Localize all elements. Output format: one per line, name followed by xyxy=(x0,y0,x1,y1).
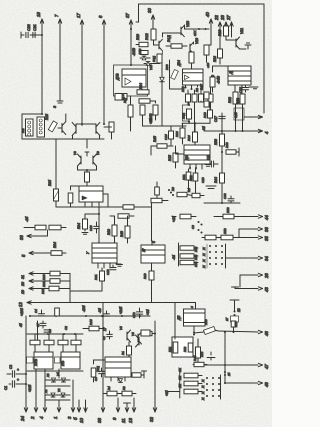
svg-text:R46: R46 xyxy=(225,142,229,148)
svg-text:23: 23 xyxy=(220,15,225,21)
svg-text:C21: C21 xyxy=(33,24,37,31)
svg-text:R40: R40 xyxy=(120,231,124,237)
svg-text:R18: R18 xyxy=(181,86,185,92)
svg-text:46: 46 xyxy=(264,331,269,336)
svg-text:C19: C19 xyxy=(89,225,93,231)
svg-text:R53: R53 xyxy=(226,207,230,213)
svg-text:C15: C15 xyxy=(234,112,238,118)
svg-text:R63: R63 xyxy=(236,98,240,104)
svg-text:+2б: +2б xyxy=(206,63,210,68)
svg-text:R26: R26 xyxy=(213,56,217,62)
svg-text:R52: R52 xyxy=(223,228,227,234)
svg-text:R51: R51 xyxy=(182,174,186,180)
svg-text:Ж: Ж xyxy=(202,253,206,257)
svg-text:R0: R0 xyxy=(171,187,175,191)
svg-text:R4: R4 xyxy=(187,188,191,192)
svg-text:35: 35 xyxy=(264,236,269,241)
svg-text:1Ж: 1Ж xyxy=(178,376,182,380)
svg-text:R03: R03 xyxy=(194,261,198,267)
svg-text:C2: C2 xyxy=(64,326,68,330)
svg-text:R38: R38 xyxy=(42,281,46,287)
svg-text:28: 28 xyxy=(264,273,269,279)
svg-text:C9: C9 xyxy=(48,329,52,333)
svg-text:Ж: Ж xyxy=(202,247,206,251)
svg-text:43: 43 xyxy=(264,287,269,292)
svg-text:C4: C4 xyxy=(34,309,38,313)
svg-text:ВМ: ВМ xyxy=(21,128,25,133)
svg-text:+9б: +9б xyxy=(146,309,150,315)
svg-text:C08: C08 xyxy=(223,193,227,199)
svg-text:-10б: -10б xyxy=(82,305,86,312)
svg-text:Ж: Ж xyxy=(202,259,206,263)
svg-text:C1: C1 xyxy=(4,386,8,390)
svg-text:22: 22 xyxy=(214,15,219,21)
svg-text:47: 47 xyxy=(264,364,269,369)
svg-text:C11: C11 xyxy=(206,154,210,160)
svg-text:11: 11 xyxy=(121,418,126,423)
svg-text:2ТВ: 2ТВ xyxy=(61,361,65,367)
svg-text:+26В: +26В xyxy=(149,113,153,122)
svg-text:R0Д: R0Д xyxy=(152,55,156,62)
svg-text:C10: C10 xyxy=(201,177,205,183)
svg-text:10: 10 xyxy=(79,418,84,423)
svg-text:-26В: -26В xyxy=(132,48,136,56)
svg-text:Х3: Х3 xyxy=(46,373,50,378)
svg-text:R4: R4 xyxy=(107,386,111,390)
svg-text:C12: C12 xyxy=(132,312,136,318)
svg-text:R10: R10 xyxy=(143,273,147,279)
svg-text:R45: R45 xyxy=(200,351,204,357)
svg-text:48: 48 xyxy=(264,382,269,387)
svg-text:18: 18 xyxy=(36,12,41,17)
svg-text:R1б: R1б xyxy=(45,114,49,120)
svg-text:33: 33 xyxy=(19,235,24,240)
svg-text:R51: R51 xyxy=(168,346,172,352)
svg-text:Ж: Ж xyxy=(202,265,206,269)
svg-text:2: 2 xyxy=(30,416,35,420)
svg-text:-9б: -9б xyxy=(202,126,206,131)
svg-text:C22: C22 xyxy=(27,24,31,31)
svg-text:R31: R31 xyxy=(94,274,98,280)
svg-text:+1б: +1б xyxy=(172,216,176,222)
svg-text:R03: R03 xyxy=(194,254,198,260)
svg-text:C18: C18 xyxy=(239,87,243,93)
svg-text:44: 44 xyxy=(264,215,269,220)
svg-text:4б: 4б xyxy=(19,323,23,327)
svg-text:R64: R64 xyxy=(139,83,143,89)
svg-text:R2: R2 xyxy=(195,88,199,92)
svg-text:V19: V19 xyxy=(195,38,199,44)
svg-text:18: 18 xyxy=(237,308,241,312)
svg-text:1Ж: 1Ж xyxy=(178,368,182,372)
svg-text:R45: R45 xyxy=(153,136,157,142)
svg-text:R08: R08 xyxy=(194,246,198,252)
svg-text:17: 17 xyxy=(225,317,229,321)
svg-text:Д04: Д04 xyxy=(177,60,181,67)
svg-text:V2: V2 xyxy=(57,388,61,392)
svg-text:1Ж: 1Ж xyxy=(178,384,182,388)
svg-text:C1б: C1б xyxy=(164,134,168,140)
svg-text:б: б xyxy=(152,241,156,243)
svg-text:12: 12 xyxy=(18,302,23,307)
svg-text:R1: R1 xyxy=(121,351,125,355)
svg-text:27: 27 xyxy=(226,15,231,21)
svg-text:V8: V8 xyxy=(73,151,77,155)
svg-text:17: 17 xyxy=(103,327,107,331)
svg-text:V5: V5 xyxy=(131,332,135,336)
svg-text:R34: R34 xyxy=(53,242,57,248)
svg-text:13: 13 xyxy=(128,418,133,423)
svg-text:+: + xyxy=(17,368,19,372)
svg-text:V15: V15 xyxy=(149,64,153,70)
svg-text:V9: V9 xyxy=(96,151,100,155)
svg-text:R44: R44 xyxy=(214,177,218,183)
svg-text:R16: R16 xyxy=(218,30,222,36)
svg-text:C7: C7 xyxy=(36,323,40,327)
svg-text:36: 36 xyxy=(264,227,269,232)
svg-text:R04: R04 xyxy=(77,223,81,229)
svg-text:R62: R62 xyxy=(228,97,232,103)
svg-text:Д5: Д5 xyxy=(177,316,181,321)
svg-text:V21: V21 xyxy=(240,28,244,34)
svg-text:V5: V5 xyxy=(119,326,123,330)
svg-text:R52: R52 xyxy=(189,175,193,181)
svg-text:R18: R18 xyxy=(107,229,111,235)
svg-text:+: + xyxy=(17,378,19,382)
svg-text:24: 24 xyxy=(20,416,25,422)
svg-text:40: 40 xyxy=(205,12,210,17)
svg-text:Д6: Д6 xyxy=(185,156,189,161)
svg-text:R4б: R4б xyxy=(204,319,208,325)
svg-text:37: 37 xyxy=(125,13,130,18)
svg-text:C2: C2 xyxy=(102,336,106,340)
svg-text:R09: R09 xyxy=(165,64,169,70)
svg-text:+24б: +24б xyxy=(119,307,123,314)
svg-text:R1Д: R1Д xyxy=(167,35,171,42)
svg-text:38: 38 xyxy=(97,418,102,423)
svg-text:R4б: R4б xyxy=(193,355,197,361)
svg-text:R2Д: R2Д xyxy=(182,112,186,119)
svg-text:Х1: Х1 xyxy=(44,389,48,394)
svg-text:R71: R71 xyxy=(234,321,238,327)
svg-text:R52: R52 xyxy=(183,346,187,352)
svg-text:31: 31 xyxy=(21,275,25,279)
svg-text:R2: R2 xyxy=(122,386,126,390)
svg-text:-24В: -24В xyxy=(217,76,221,84)
svg-text:R17: R17 xyxy=(200,84,204,90)
svg-text:R12: R12 xyxy=(145,33,149,40)
svg-text:C4: C4 xyxy=(94,377,98,381)
svg-text:R37: R37 xyxy=(41,288,45,294)
svg-text:R39: R39 xyxy=(42,274,46,280)
svg-text:+10б: +10б xyxy=(20,308,24,316)
svg-text:20: 20 xyxy=(21,282,25,287)
svg-text:R1З: R1З xyxy=(203,112,207,118)
svg-text:V23: V23 xyxy=(186,21,190,27)
svg-text:V16: V16 xyxy=(138,48,142,54)
svg-text:R17: R17 xyxy=(123,97,127,103)
svg-text:17: 17 xyxy=(76,13,81,18)
svg-text:R10: R10 xyxy=(136,34,140,40)
svg-text:R1б: R1б xyxy=(187,135,191,141)
svg-text:C17: C17 xyxy=(214,116,218,122)
svg-text:R15: R15 xyxy=(168,155,172,161)
svg-text:19: 19 xyxy=(21,290,25,294)
svg-text:-9б: -9б xyxy=(172,255,176,260)
svg-text:32: 32 xyxy=(149,417,154,422)
svg-text:R50: R50 xyxy=(214,139,218,145)
svg-text:+24б: +24б xyxy=(28,385,32,392)
svg-text:C13: C13 xyxy=(106,269,110,275)
svg-text:R0б: R0б xyxy=(48,180,52,186)
svg-text:15: 15 xyxy=(227,372,231,376)
svg-text:R1б: R1б xyxy=(175,131,179,137)
svg-text:-9б: -9б xyxy=(98,308,102,313)
svg-text:27: 27 xyxy=(142,248,146,253)
svg-text:30: 30 xyxy=(147,8,152,13)
svg-text:34: 34 xyxy=(264,256,269,261)
svg-text:Д7В: Д7В xyxy=(116,73,120,81)
svg-text:Х0ТВ: Х0ТВ xyxy=(34,359,38,367)
svg-text:R4б: R4б xyxy=(89,319,93,325)
svg-text:C3: C3 xyxy=(9,365,13,369)
svg-text:C9: C9 xyxy=(191,225,195,229)
